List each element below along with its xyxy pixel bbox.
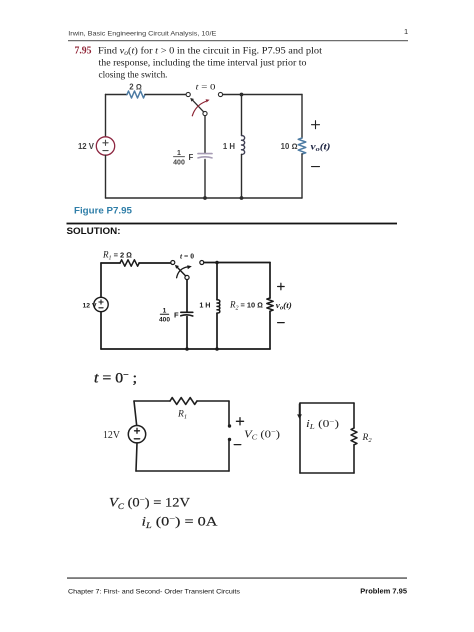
resistor R1 2ohm	[120, 260, 139, 266]
switch blade arrowhead	[190, 98, 194, 102]
switch t=0 right contact	[218, 92, 222, 96]
switch blade	[176, 266, 185, 276]
node junction bottom of capacitor	[203, 196, 207, 200]
svg-text:F: F	[174, 310, 179, 319]
switch right contact	[200, 261, 204, 265]
svg-text:closing the switch.: closing the switch.	[99, 71, 168, 81]
svg-text:Problem 7.95: Problem 7.95	[360, 587, 407, 596]
svg-text:Find vo(t) for t > 0 in the ci: Find vo(t) for t > 0 in the circuit in F…	[98, 45, 322, 57]
wire inductor branch lower	[216, 313, 218, 349]
wire right branch lower	[353, 445, 355, 473]
switch blade	[192, 99, 204, 112]
switch arc arrowhead	[206, 99, 210, 102]
current arrow iL	[299, 404, 301, 416]
svg-text:7.95: 7.95	[75, 45, 92, 56]
wire left branch	[299, 403, 301, 473]
header rule	[68, 40, 408, 41]
wire left branch upper	[105, 95, 107, 137]
label 1/400 F	[159, 308, 179, 324]
node junction top of inductor	[215, 261, 219, 265]
svg-text:iL (0−) = 0A: iL (0−) = 0A	[142, 514, 219, 531]
inductor L 1H	[242, 136, 245, 155]
voltage source 12V hand	[94, 297, 108, 311]
wire right branch lower	[269, 311, 271, 349]
resistor R2 hand	[351, 428, 357, 445]
wire inductor branch upper	[241, 95, 243, 136]
switch arc arrowhead	[187, 265, 192, 269]
svg-text:1: 1	[404, 27, 408, 36]
wire left branch lower	[136, 443, 137, 471]
wire top to switch	[139, 262, 171, 264]
wire bottom	[136, 470, 229, 472]
wire top segment left	[134, 400, 170, 402]
label +	[236, 418, 243, 425]
inductor 1H hand	[217, 300, 220, 313]
wire left branch lower	[100, 312, 102, 349]
node junction bottom of inductor	[240, 196, 244, 200]
voltage source 12V	[96, 137, 114, 155]
svg-text:2 Ω: 2 Ω	[129, 83, 142, 92]
wire inductor branch upper	[216, 263, 218, 300]
svg-text:12 V: 12 V	[83, 303, 97, 310]
wire switch to top-right	[223, 94, 302, 96]
wire capacitor branch upper	[204, 116, 206, 153]
wire top to switch	[145, 94, 186, 96]
svg-text:Figure P7.95: Figure P7.95	[74, 206, 132, 216]
wire switch to top-right	[204, 262, 270, 264]
wire right branch upper	[269, 263, 271, 299]
svg-text:t = 0: t = 0	[180, 251, 194, 260]
label -	[234, 444, 241, 446]
wire inductor branch lower	[241, 155, 243, 199]
wire right branch upper	[228, 401, 230, 425]
svg-text:12 V: 12 V	[78, 142, 95, 151]
wire top	[300, 402, 354, 404]
svg-text:SOLUTION:: SOLUTION:	[67, 226, 121, 236]
svg-text:Irwin, Basic Engineering Circu: Irwin, Basic Engineering Circuit Analysi…	[68, 31, 217, 38]
output + label	[278, 283, 285, 290]
wire right branch lower	[228, 441, 230, 471]
svg-text:F: F	[189, 153, 194, 162]
svg-text:Chapter 7: First- and Second-: Chapter 7: First- and Second- Order Tran…	[68, 589, 241, 596]
switch blade arrowhead	[175, 265, 179, 269]
resistor R 10ohm	[298, 138, 306, 154]
node junction top of inductor	[240, 93, 244, 97]
voltage source 12V hand	[128, 426, 145, 443]
output + label	[312, 121, 320, 129]
switch closing arc arrow	[192, 102, 205, 116]
svg-text:the response, including the ti: the response, including the time interva…	[99, 59, 307, 69]
switch closing arc arrow	[177, 267, 188, 278]
wire right branch upper	[353, 403, 355, 428]
wire left branch lower	[105, 155, 107, 198]
wire capacitor branch lower	[186, 317, 188, 349]
svg-text:1: 1	[177, 150, 181, 157]
terminal node top	[228, 424, 231, 427]
svg-text:1 H: 1 H	[199, 301, 210, 310]
value label 1/400 F	[173, 150, 193, 167]
output - label	[312, 166, 320, 168]
switch t=0 left contact	[186, 92, 190, 96]
switch left contact	[171, 261, 175, 265]
svg-text:12V: 12V	[103, 430, 120, 441]
capacitor 1/400 F hand	[181, 311, 193, 313]
svg-text:1 H: 1 H	[223, 142, 236, 151]
terminal node bottom	[228, 438, 231, 441]
wire right branch lower	[301, 154, 303, 198]
resistor R1 hand	[170, 398, 197, 405]
capacitor 1/400 F	[198, 153, 212, 155]
wire right branch upper	[301, 95, 303, 139]
wire capacitor branch lower	[204, 160, 206, 199]
wire left branch upper	[100, 263, 102, 297]
svg-text:t = 0− ;: t = 0− ;	[94, 370, 137, 387]
wire top segment right	[197, 400, 229, 402]
resistor RL 10ohm hand	[267, 298, 273, 311]
wire bottom	[106, 197, 303, 199]
wire left branch upper	[134, 401, 137, 426]
svg-text:400: 400	[159, 317, 170, 324]
wire capacitor branch upper	[186, 280, 188, 312]
wire top-left segment	[101, 262, 120, 264]
footer rule	[67, 578, 407, 579]
wire bottom	[300, 472, 354, 474]
switch t=0 lower contact	[203, 111, 207, 115]
wire bottom	[101, 348, 270, 350]
svg-text:1: 1	[163, 308, 167, 315]
node junction bottom of inductor	[215, 347, 219, 351]
resistor R 2ohm	[127, 91, 145, 98]
output - label	[278, 322, 285, 324]
solution rule	[67, 223, 398, 225]
switch lower contact	[185, 275, 189, 279]
node junction bottom of capacitor	[185, 347, 189, 351]
svg-text:VC (0−): VC (0−)	[244, 427, 280, 441]
svg-text:400: 400	[173, 160, 185, 167]
svg-text:t = 0: t = 0	[196, 83, 216, 92]
svg-text:10 Ω: 10 Ω	[281, 142, 298, 151]
wire top-left segment	[106, 94, 128, 96]
